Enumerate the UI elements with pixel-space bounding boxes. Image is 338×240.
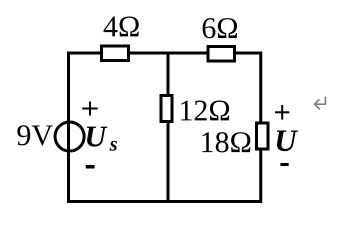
polarity minus of U: [280, 163, 288, 166]
value label 18Ω: [202, 132, 250, 152]
polarity minus of Us: [86, 165, 95, 169]
voltage label Us: [87, 127, 108, 147]
value label 4Ω: [104, 17, 139, 37]
line-break editing mark: [315, 97, 326, 110]
resistor 4Ω body: [102, 46, 129, 61]
wire: outer loop (top, right, bottom, left): [69, 53, 261, 202]
source value label 9V: [17, 125, 52, 145]
value label 6Ω: [203, 18, 237, 38]
polarity plus of Us: [82, 102, 97, 116]
voltage source 9V circle: [55, 122, 84, 151]
resistor 18Ω body: [257, 123, 269, 149]
polarity plus of U: [275, 105, 289, 120]
resistor 6Ω body: [208, 47, 235, 62]
value label 12Ω: [181, 101, 229, 121]
wire: left wire through source: [67, 118, 70, 155]
resistor 12Ω body: [161, 96, 172, 122]
voltage label U: [277, 131, 298, 152]
wire: middle branch vertical: [167, 53, 170, 202]
